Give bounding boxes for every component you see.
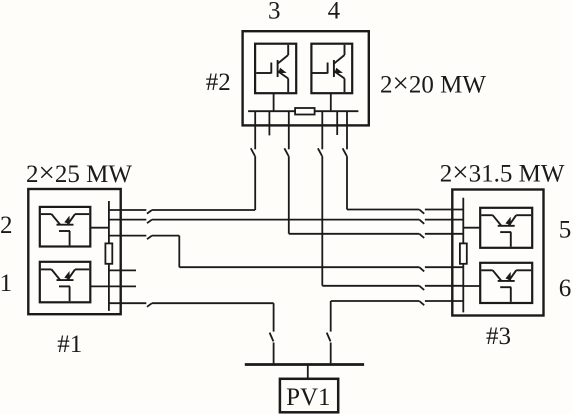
- wire drop3 to station #3 port5: [322, 285, 419, 287]
- PV right riser lower: [330, 343, 332, 364]
- jog net horizontal upper: [152, 235, 179, 237]
- svg-text:#3: #3: [486, 323, 511, 350]
- jog net vertical: [178, 236, 180, 268]
- switch S14: [419, 267, 424, 271]
- svg-text:2×20 MW: 2×20 MW: [380, 68, 486, 100]
- wire converter2 to bus: [90, 227, 109, 229]
- switch S10: [419, 210, 424, 214]
- station #1 stub port5 with converter link: [90, 285, 136, 287]
- resistor R1 on station #1 bus: [105, 243, 112, 263]
- port5 wire into station #3: [425, 285, 463, 287]
- switch S5: [147, 210, 152, 214]
- wire bus to PV1: [307, 365, 309, 379]
- station #1 dc bus: [108, 201, 110, 311]
- svg-text:1: 1: [0, 270, 12, 297]
- PV1 box: [280, 379, 338, 413]
- feeder drop 4 lower wire: [346, 156, 348, 209]
- svg-text:6: 6: [559, 275, 572, 302]
- IGBT U5: [481, 215, 531, 247]
- svg-text:#2: #2: [206, 69, 231, 96]
- switch S11: [419, 234, 424, 238]
- port1 wire into station #3: [425, 209, 463, 211]
- converter 6 sub-box: [480, 263, 532, 303]
- stub feeder a: [268, 111, 270, 135]
- feeder drop 3 upper wire: [321, 111, 323, 149]
- PV right branch horizontal: [331, 300, 420, 302]
- feeder drop 3 lower wire: [321, 156, 323, 286]
- switch S13: [419, 286, 424, 290]
- svg-text:3: 3: [268, 0, 281, 25]
- wire drop2 to station #3 port3: [289, 233, 420, 235]
- switch S2: [284, 148, 288, 156]
- wire drop1 to station #1 port1: [152, 209, 255, 211]
- feeder drop 4 upper wire: [346, 111, 348, 149]
- feeder drop 1 lower wire: [254, 156, 256, 210]
- converter 4 sub-box: [311, 44, 352, 93]
- port1 wire into station #1: [109, 209, 146, 211]
- tie line between station #1 and #3: [152, 219, 419, 221]
- IGBT U4: [313, 45, 345, 92]
- wire converter5 to bus: [463, 227, 480, 229]
- tie line port2 left segment: [109, 219, 146, 221]
- converter 3 sub-box: [255, 44, 296, 93]
- switch S3: [318, 148, 322, 156]
- stub feeder b: [336, 111, 338, 135]
- station #3 dc bus: [462, 198, 464, 313]
- IGBT U1: [41, 269, 89, 301]
- switch S6: [147, 220, 152, 224]
- switch S15: [419, 301, 424, 305]
- resistor R2 on station #2 bus: [295, 108, 315, 115]
- wire converter3 to dc bus: [273, 93, 275, 111]
- svg-text:2: 2: [0, 212, 12, 239]
- svg-text:#1: #1: [57, 331, 82, 358]
- wire drop4 to station #3 port1: [347, 209, 419, 211]
- switch S8: [147, 303, 152, 307]
- port3 wire into station #3: [425, 233, 463, 235]
- converter 5 sub-box: [480, 208, 532, 248]
- tie line port2 right segment: [425, 219, 463, 221]
- PV right riser upper: [330, 301, 332, 332]
- svg-text:2×31.5 MW: 2×31.5 MW: [440, 157, 565, 189]
- converter 1 sub-box: [40, 262, 91, 303]
- switch S9: [270, 333, 274, 342]
- converter 2 sub-box: [40, 207, 91, 247]
- PV left riser upper: [273, 303, 275, 331]
- IGBT U2: [41, 214, 89, 245]
- PV right branch port6 wire: [425, 300, 463, 302]
- IGBT U3: [256, 45, 288, 92]
- PV left branch horizontal: [152, 302, 274, 304]
- jog net horizontal lower: [179, 266, 419, 268]
- feeder drop 2 upper wire: [288, 111, 290, 149]
- feeder drop 1 upper wire: [254, 111, 256, 149]
- svg-text:2×25 MW: 2×25 MW: [26, 157, 132, 189]
- PV collector bus: [245, 363, 364, 366]
- switch S1: [251, 148, 255, 156]
- jog net port3 wire into station #1: [109, 235, 146, 237]
- switch S16: [327, 333, 331, 342]
- wire converter6 to bus: [463, 285, 480, 287]
- IGBT U6: [481, 270, 531, 302]
- switch S12: [419, 220, 424, 224]
- PV left branch port6 wire: [109, 302, 146, 304]
- switch S4: [343, 148, 347, 156]
- station #3 outer box: [452, 190, 543, 316]
- station #2 outer box: [243, 31, 369, 125]
- resistor R3 on station #3 bus: [460, 243, 467, 263]
- switch S7: [147, 236, 152, 240]
- svg-text:PV1: PV1: [286, 384, 330, 411]
- dc bus of station #2: [248, 110, 358, 112]
- station #1 stub port4: [109, 269, 136, 271]
- svg-text:4: 4: [328, 0, 341, 25]
- PV left riser lower: [273, 343, 275, 364]
- wire converter4 to dc bus: [330, 93, 332, 111]
- port4 wire into station #3: [425, 266, 463, 268]
- svg-text:5: 5: [559, 216, 572, 243]
- station #1 outer box: [28, 189, 120, 314]
- feeder drop 2 lower wire: [288, 156, 290, 234]
